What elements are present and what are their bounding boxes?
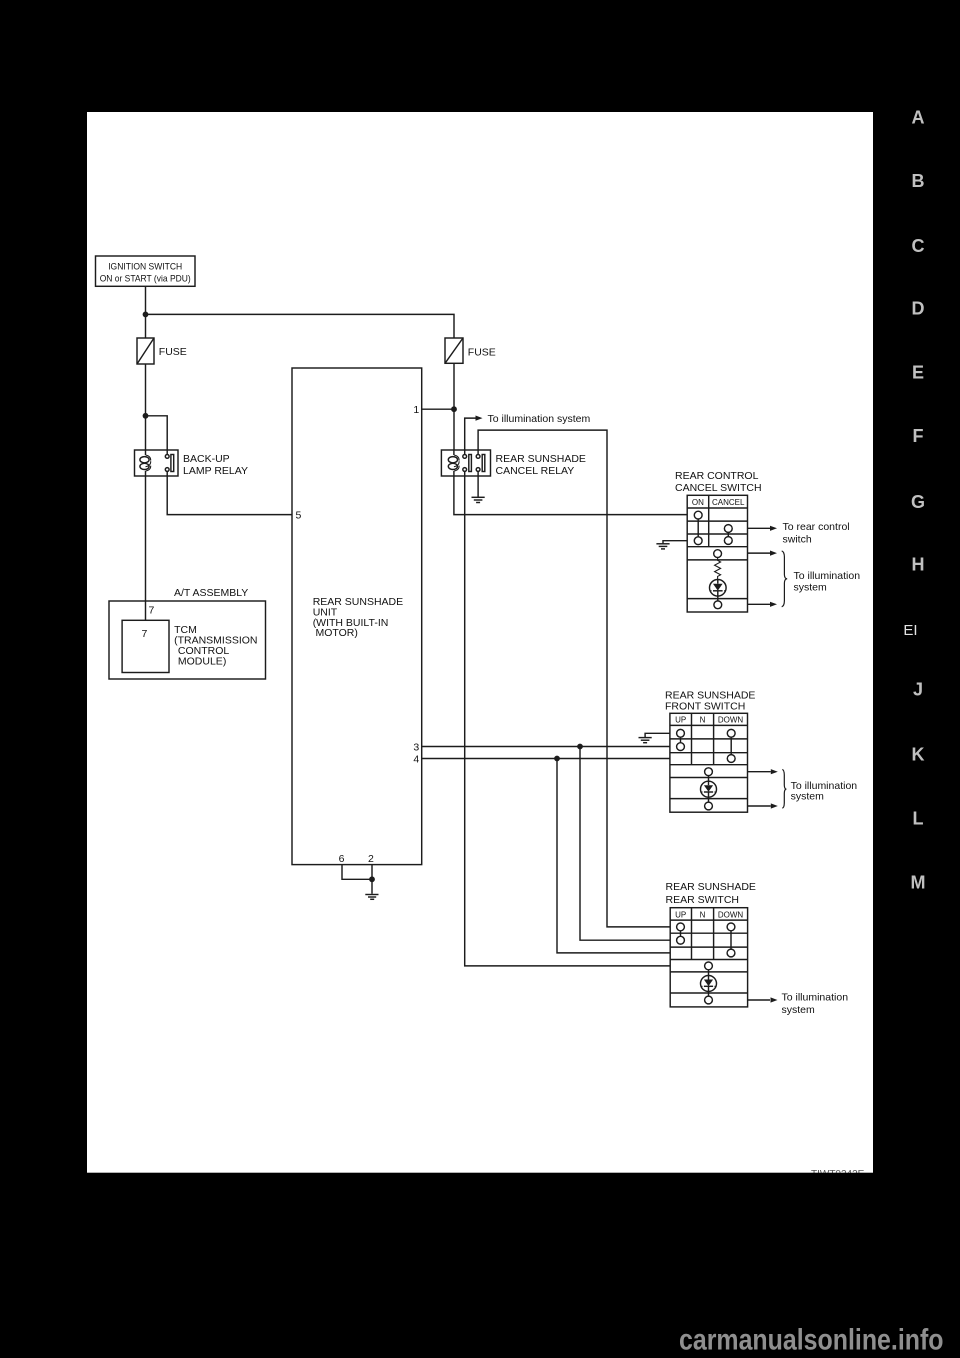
- svg-text:4: 4: [413, 753, 419, 765]
- svg-text:A: A: [912, 107, 925, 127]
- svg-text:G: G: [911, 492, 925, 512]
- svg-text:FUSE: FUSE: [468, 347, 496, 359]
- svg-text:J: J: [913, 679, 923, 699]
- junction at ignition feed split: [143, 312, 149, 318]
- svg-text:K: K: [912, 744, 925, 764]
- svg-text:To illumination: To illumination: [794, 570, 861, 582]
- arrow: to illumination system (top): [476, 416, 483, 421]
- wire: horizontal feed to right fuse: [146, 314, 455, 338]
- svg-text:CANCEL RELAY: CANCEL RELAY: [496, 465, 575, 477]
- svg-text:F: F: [913, 426, 924, 446]
- wire+arrow: cancel switch illumination bottom: [748, 602, 778, 607]
- svg-text:REAR SUNSHADE: REAR SUNSHADE: [496, 453, 586, 465]
- svg-text:E: E: [912, 362, 924, 382]
- svg-text:N: N: [700, 716, 706, 725]
- switch: REAR CONTROL CANCEL SWITCH title: [675, 470, 762, 494]
- svg-text:7: 7: [149, 605, 155, 617]
- svg-text:6: 6: [339, 853, 345, 865]
- svg-text:UP: UP: [675, 716, 686, 725]
- svg-text:IGNITION SWITCH: IGNITION SWITCH: [108, 261, 182, 272]
- wire: relay coil down to TCM pin 7: [145, 476, 147, 620]
- relay: REAR SUNSHADE CANCEL RELAY: [441, 450, 586, 477]
- svg-text:D: D: [912, 298, 925, 318]
- junction on wire 3: [577, 744, 583, 750]
- svg-text:FUSE: FUSE: [159, 346, 187, 358]
- svg-text:7: 7: [142, 628, 148, 640]
- svg-text:5: 5: [296, 510, 302, 522]
- wire: branch from wire 3 down to rear switch: [580, 747, 670, 941]
- svg-text:MOTOR): MOTOR): [316, 627, 358, 639]
- svg-text:FRONT SWITCH: FRONT SWITCH: [665, 700, 745, 712]
- wire: cancel relay contact up to illumination arrow: [465, 418, 476, 450]
- label: To illumination system (front switch): [791, 780, 858, 803]
- svg-text:L: L: [913, 808, 924, 828]
- svg-text:H: H: [912, 554, 925, 574]
- wire: unit pin 6 to ground junction: [342, 865, 372, 880]
- svg-text:CANCEL SWITCH: CANCEL SWITCH: [675, 482, 762, 494]
- junction at pin 1 / fuse feed: [451, 406, 457, 412]
- svg-text:system: system: [791, 791, 825, 803]
- svg-text:system: system: [782, 1004, 816, 1016]
- junction on wire 4: [554, 756, 560, 762]
- wire: front switch to ground: [645, 733, 670, 737]
- ground: front switch: [639, 738, 652, 743]
- label: To illumination system (rear switch): [782, 991, 849, 1016]
- switch: REAR CONTROL CANCEL SWITCH body: [687, 495, 747, 612]
- ground: cancel relay: [472, 497, 485, 502]
- svg-text:To rear control: To rear control: [783, 521, 850, 533]
- wire: cancel relay contact 2 loop to rear switch UP row: [478, 430, 670, 927]
- svg-text:DOWN: DOWN: [718, 910, 744, 919]
- svg-text:BACK-UP: BACK-UP: [183, 453, 230, 465]
- svg-text:ON or START (via PDU): ON or START (via PDU): [100, 273, 191, 284]
- svg-text:carmanualsonline.info: carmanualsonline.info: [679, 1324, 944, 1357]
- svg-text:1: 1: [413, 404, 419, 416]
- svg-text:MODULE): MODULE): [178, 655, 226, 667]
- wire: cancel relay contact 1 down to rear switch: [465, 476, 671, 966]
- junction above back-up lamp relay: [143, 413, 149, 419]
- brace: front switch illumination group: [782, 769, 786, 808]
- wire: right fuse down to cancel relay coil: [453, 363, 455, 450]
- wire: relay contact down and right to unit pin 5: [167, 476, 292, 515]
- svg-text:REAR SWITCH: REAR SWITCH: [666, 894, 740, 906]
- wire: cancel switch to ground: [663, 541, 687, 544]
- wire+arrow: front switch illumination bottom: [748, 803, 778, 808]
- ground: cancel switch: [656, 544, 669, 549]
- svg-text:switch: switch: [783, 534, 812, 546]
- wire: unit pin 4 to front switch: [422, 758, 670, 760]
- svg-text:3: 3: [413, 741, 419, 753]
- fuse F1: [137, 338, 187, 364]
- wire: unit pin 1 to fuse line: [422, 408, 454, 410]
- brace: cancel switch illumination group: [782, 551, 788, 607]
- svg-text:REAR CONTROL: REAR CONTROL: [675, 470, 759, 482]
- svg-text:N: N: [700, 910, 706, 919]
- wire+arrow: cancel switch illumination top: [748, 551, 778, 556]
- wire: cancel relay contact 2 to ground: [477, 476, 479, 497]
- svg-text:To illumination: To illumination: [782, 991, 849, 1003]
- switch: REAR SUNSHADE REAR SWITCH body: [670, 908, 747, 1007]
- svg-text:DOWN: DOWN: [718, 716, 744, 725]
- svg-text:CANCEL: CANCEL: [712, 498, 745, 507]
- wire: cancel relay coil to cancel switch: [454, 476, 687, 515]
- wire: branch to relay contact: [146, 416, 168, 450]
- relay: BACK-UP LAMP RELAY: [135, 450, 248, 477]
- wire: branch from wire 4 down to rear switch: [557, 759, 670, 953]
- ground: rear sunshade unit: [365, 895, 378, 900]
- junction at pins 6/2 ground: [369, 876, 375, 882]
- fuse F2: [445, 338, 496, 363]
- wire+arrow: to rear control switch: [748, 521, 850, 546]
- wire+arrow: front switch illumination top: [748, 769, 778, 774]
- wire: unit pin 2 to ground: [371, 865, 373, 894]
- wire+arrow: rear switch illumination: [748, 997, 778, 1002]
- box: REAR SUNSHADE UNIT (WITH BUILT-IN MOTOR): [292, 368, 422, 865]
- svg-text:2: 2: [368, 853, 374, 865]
- box: IGNITION SWITCH ON or START (via PDU): [96, 256, 196, 286]
- svg-text:EI: EI: [903, 622, 917, 639]
- box: A/T ASSEMBLY: [109, 587, 266, 679]
- svg-text:UP: UP: [675, 910, 686, 919]
- label: To illumination system (cancel switch): [794, 570, 861, 594]
- wire: unit pin 3 to front switch: [422, 746, 670, 748]
- wire: left fuse down to back-up lamp relay coil: [145, 364, 147, 450]
- svg-text:B: B: [912, 171, 925, 191]
- svg-text:LAMP RELAY: LAMP RELAY: [183, 465, 248, 477]
- svg-text:system: system: [794, 581, 828, 593]
- svg-text:A/T ASSEMBLY: A/T ASSEMBLY: [174, 587, 248, 599]
- box: TCM (TRANSMISSION CONTROL MODULE): [122, 620, 257, 672]
- switch: REAR SUNSHADE REAR SWITCH title: [666, 881, 756, 906]
- svg-text:REAR SUNSHADE: REAR SUNSHADE: [666, 881, 756, 893]
- svg-text:M: M: [911, 872, 926, 892]
- switch: REAR SUNSHADE FRONT SWITCH title: [665, 690, 755, 713]
- svg-text:ON: ON: [692, 498, 704, 507]
- svg-text:To illumination system: To illumination system: [488, 413, 591, 425]
- switch: REAR SUNSHADE FRONT SWITCH body: [670, 713, 748, 812]
- svg-text:C: C: [912, 236, 925, 256]
- wire: ignition switch down to left fuse: [145, 286, 147, 338]
